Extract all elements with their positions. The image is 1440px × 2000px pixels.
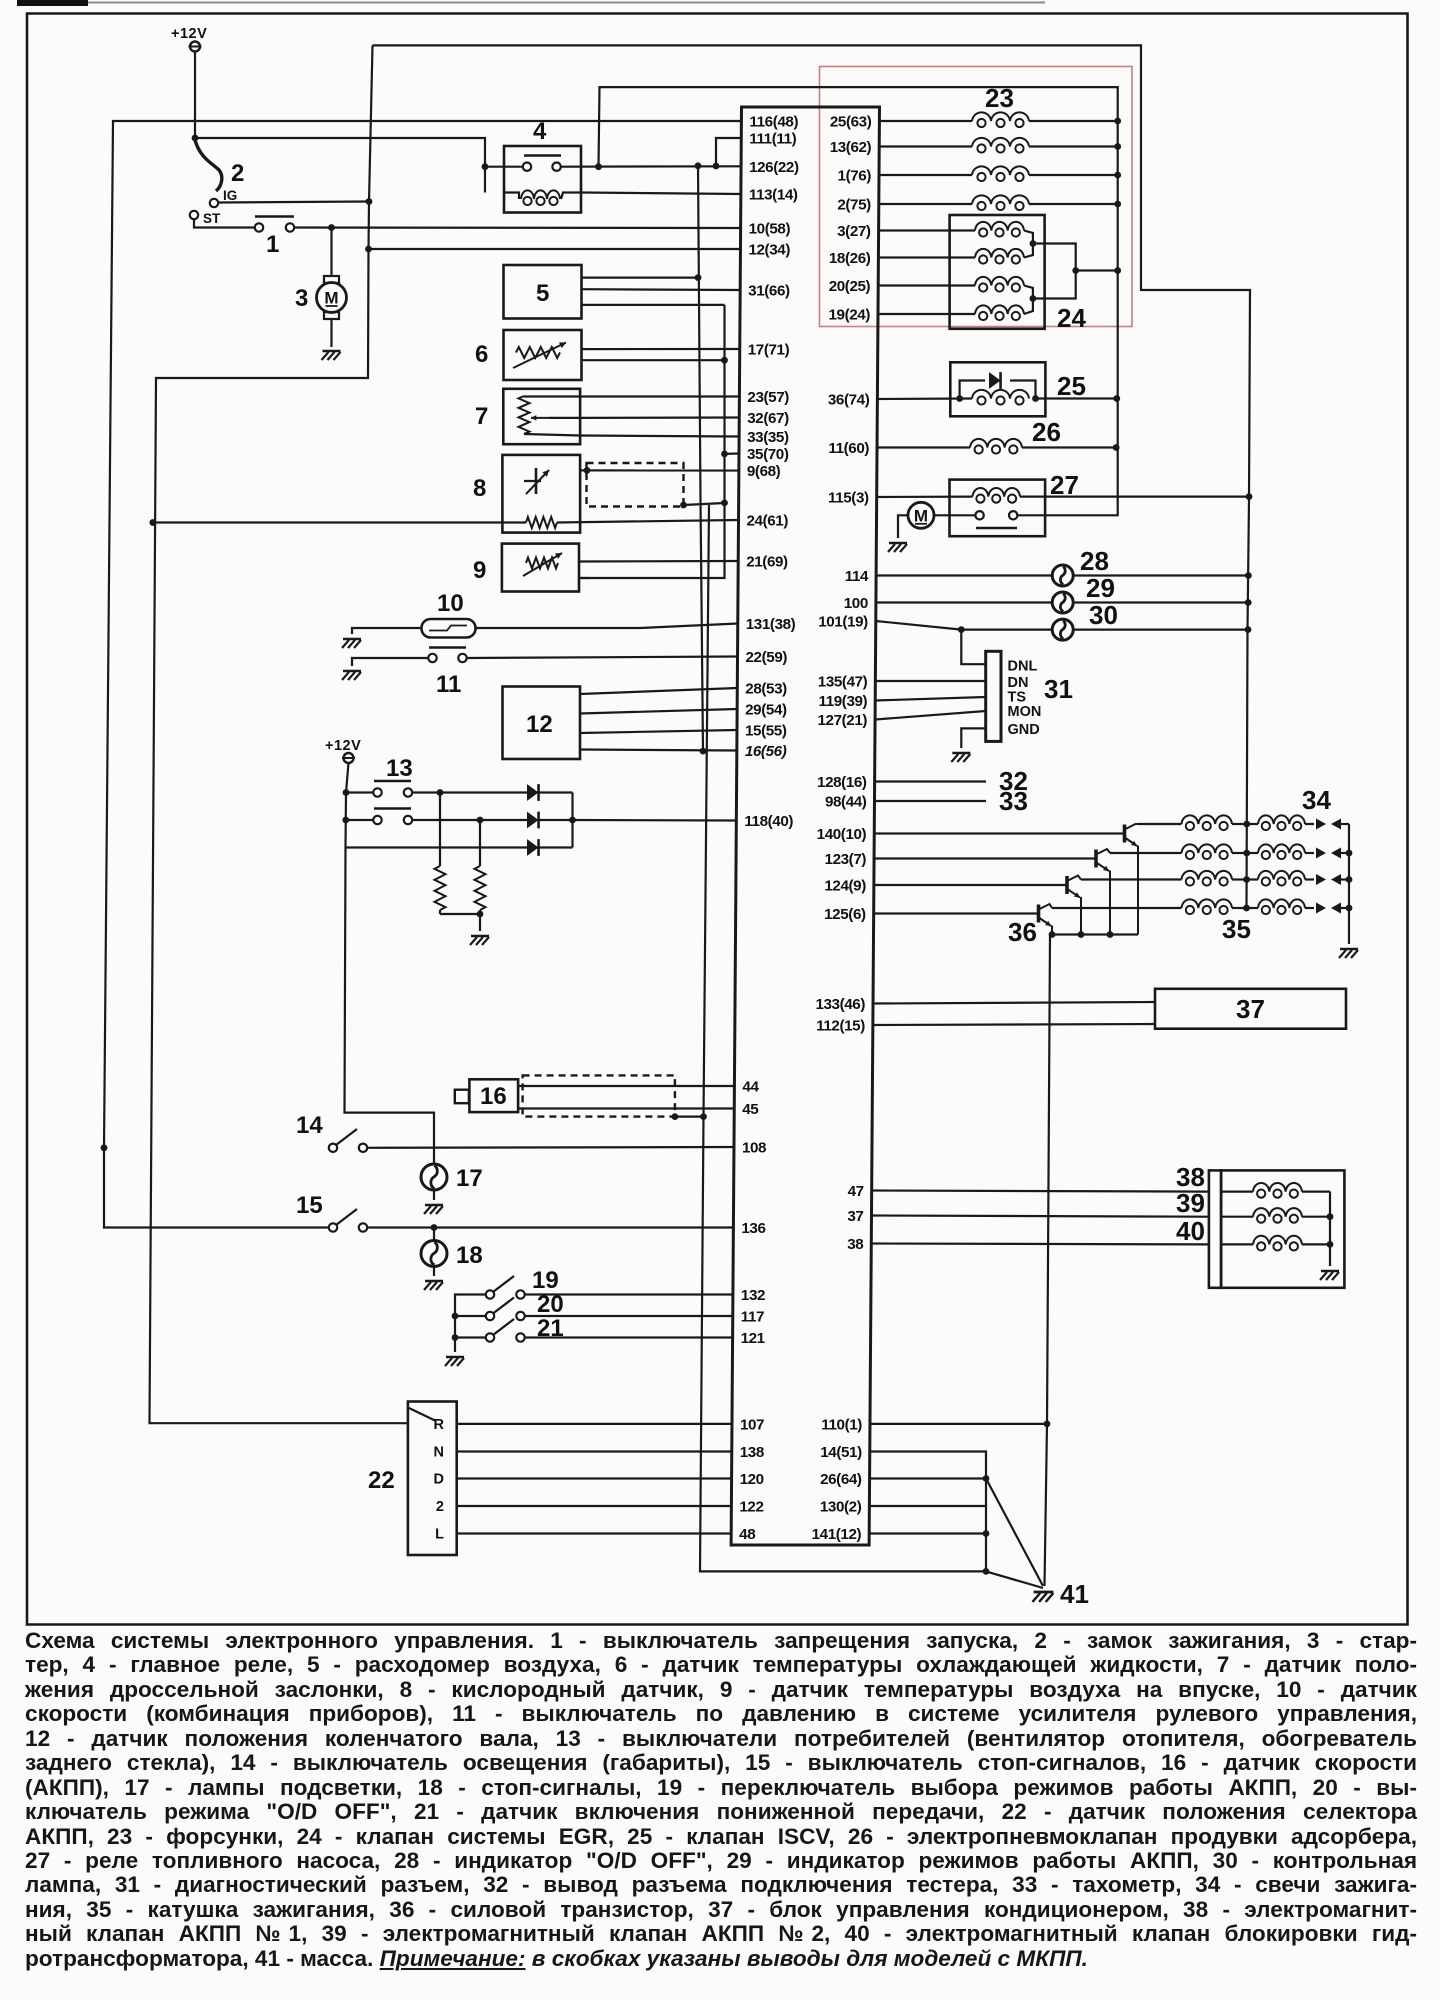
- svg-text:25: 25: [1057, 371, 1086, 401]
- junction emitter T4: [1049, 931, 1056, 938]
- transistor common emitter bus: [1052, 933, 1138, 935]
- main relay 4 box: [504, 146, 581, 213]
- ground (fuel pump): [889, 542, 907, 545]
- switch 19 lever: [493, 1276, 514, 1292]
- A/C control unit 37 box: [1155, 989, 1346, 1029]
- svg-text:24(61): 24(61): [747, 513, 789, 530]
- switch 13b contacts: [373, 816, 381, 824]
- svg-text:14: 14: [296, 1112, 323, 1139]
- junction injector 4 bus: [1114, 201, 1121, 208]
- wire 16 to pin 44: [518, 1085, 734, 1087]
- wire pin to solenoid 38: [872, 1191, 1209, 1192]
- lamp 18 (stop lights): [433, 1228, 435, 1241]
- wire comp5 line1: [582, 277, 699, 279]
- ignition coil 35 secondary 1: [1247, 823, 1258, 825]
- svg-text:21(69): 21(69): [746, 554, 788, 571]
- speed sensor 16 plug: [455, 1090, 469, 1104]
- wire pin 130(2): [869, 1505, 986, 1507]
- wire +B to pin 116(48) and light switches: [104, 121, 741, 1228]
- ground (speed sensor): [343, 638, 361, 641]
- svg-text:133(46): 133(46): [815, 996, 865, 1013]
- svg-text:132: 132: [741, 1287, 765, 1304]
- svg-text:127(21): 127(21): [818, 712, 868, 729]
- switch 15 lever: [336, 1209, 357, 1225]
- lamp 17 (illumination): [421, 1164, 447, 1190]
- svg-text:45: 45: [742, 1101, 759, 1118]
- svg-text:26: 26: [1032, 417, 1061, 447]
- junction 141(12): [983, 1530, 990, 1537]
- injector coil 23.2: [879, 145, 972, 147]
- stop switch 15 contacts: [329, 1223, 337, 1231]
- transistor Q1: [1123, 825, 1127, 843]
- junction comp5 busA: [695, 274, 702, 281]
- wire switch 14 to pin 108: [368, 1146, 735, 1149]
- EGR coil 24.1: [879, 229, 975, 231]
- svg-text:29: 29: [1086, 573, 1115, 603]
- svg-text:9: 9: [473, 557, 486, 584]
- svg-text:40: 40: [1176, 1216, 1205, 1246]
- junction solenoid 40: [1327, 1241, 1334, 1248]
- wire lamp 18 ground: [433, 1267, 435, 1277]
- intake air temp sensor 9 box: [502, 544, 579, 592]
- starter motor 3 terminal bottom: [324, 312, 339, 319]
- ground (lamp 17): [425, 1204, 443, 1207]
- svg-text:15(55): 15(55): [745, 723, 787, 740]
- scan artifact bar top-left: [17, 0, 88, 6]
- svg-text:125(6): 125(6): [824, 906, 866, 923]
- junction W2 injector feed start: [595, 163, 602, 170]
- junction bottom wire: [983, 1568, 990, 1575]
- thermistor 6: [516, 347, 560, 358]
- svg-text:110(1): 110(1): [821, 1416, 862, 1433]
- svg-text:GND: GND: [1008, 722, 1040, 738]
- ST terminal: [190, 211, 198, 219]
- switch 13a bar: [374, 780, 411, 782]
- junction +12V: [192, 135, 199, 142]
- svg-text:+12V: +12V: [325, 738, 361, 754]
- ground (connector 31): [952, 752, 970, 755]
- svg-text:141(12): 141(12): [812, 1526, 862, 1543]
- junction injector 1 bus: [1114, 118, 1121, 125]
- wire 16 shield to ground bus: [675, 1115, 704, 1117]
- junction comp16 shield on ground bus: [700, 1113, 707, 1120]
- resistor R2: [479, 820, 481, 866]
- air flow meter 5 box: [504, 265, 582, 319]
- svg-text:M: M: [914, 506, 928, 525]
- transistor Q2 emitter: [1097, 863, 1109, 871]
- purge valve coil 26: [877, 446, 970, 448]
- svg-text:11(60): 11(60): [828, 440, 869, 457]
- svg-text:98(44): 98(44): [825, 794, 867, 811]
- svg-text:28(53): 28(53): [745, 681, 787, 698]
- wire TPS to pin 23(57): [580, 395, 739, 397]
- junction 29 bus: [1245, 599, 1252, 606]
- svg-text:41: 41: [1060, 1579, 1089, 1609]
- O2 sensor element symbol: [535, 468, 538, 494]
- wire 12(34) row: [369, 248, 741, 250]
- wire comp6 to pin 17(71): [582, 348, 740, 350]
- wire pin 98(44) tachometer: [875, 800, 987, 802]
- svg-text:115(3): 115(3): [828, 490, 869, 507]
- junction ISCV left: [956, 395, 963, 402]
- junction injector 2 bus: [1114, 143, 1121, 150]
- light switch 14 contacts: [329, 1144, 337, 1152]
- wire TPS wiper to pin 32(67): [580, 416, 739, 419]
- junction R1 top: [437, 789, 444, 796]
- junction shield line busB: [721, 500, 728, 507]
- junction injector 3 bus: [1114, 172, 1121, 179]
- junction shield entry: [584, 467, 591, 474]
- svg-text:IG: IG: [223, 188, 237, 203]
- wire pin 36(74) to ISCV: [877, 397, 972, 400]
- svg-text:17(71): 17(71): [748, 342, 790, 359]
- injector coil 23.1: [879, 120, 972, 122]
- wire pin to solenoid 39: [872, 1216, 1209, 1217]
- svg-text:117: 117: [741, 1309, 764, 1326]
- transistor Q4: [1037, 905, 1041, 923]
- junction relay4 contact feed: [482, 163, 489, 170]
- indicator lamp 28: [1052, 565, 1073, 586]
- wire 12 to pin 29(54): [580, 709, 737, 714]
- svg-text:1: 1: [266, 231, 279, 258]
- svg-text:120: 120: [740, 1471, 764, 1488]
- power steering switch 11 contacts: [428, 654, 436, 662]
- svg-text:22: 22: [368, 1467, 395, 1494]
- wire pin 100 to lamp 29: [876, 601, 1053, 603]
- svg-text:D: D: [434, 1472, 444, 1488]
- busB sensor-ground vertical: [579, 305, 725, 578]
- TPS wiper arrow: [531, 417, 549, 419]
- junction ISCV bus: [1113, 395, 1120, 402]
- ground 41: [1034, 1591, 1054, 1594]
- junction 111(11) jog: [713, 163, 720, 170]
- O2 sensor arrow: [526, 470, 549, 494]
- svg-text:3: 3: [295, 285, 308, 312]
- busA vertical: [698, 166, 703, 751]
- wire pin 128(16) tester lead: [875, 780, 986, 782]
- wire relay 27 contact row: [1018, 514, 1046, 516]
- wire switch 11 to pin 22(59): [467, 657, 738, 659]
- solenoid ground rail: [1329, 1192, 1331, 1266]
- wire pin 123(7) to transistor Q2 base: [874, 857, 1096, 859]
- diode D2: [527, 812, 539, 829]
- junction IG wire: [366, 198, 373, 205]
- wire pin 133(46) to box 37: [873, 1002, 1155, 1004]
- wire +B top distribution W1: [373, 45, 1251, 908]
- ISCV diode: [989, 372, 1001, 389]
- diagonal ground lead A: [986, 1479, 1043, 1587]
- plug ground rail 34: [1348, 824, 1350, 944]
- wire 12 to pin 16(56): [580, 750, 737, 751]
- svg-text:121: 121: [741, 1330, 766, 1347]
- svg-text:24: 24: [1057, 303, 1086, 333]
- svg-text:26(64): 26(64): [820, 1471, 862, 1488]
- switch 19-21 ground rail: [455, 1295, 486, 1353]
- wire relay 4 coil to pin 113(14): [581, 193, 741, 195]
- svg-text:107: 107: [740, 1416, 764, 1433]
- svg-text:23: 23: [985, 83, 1014, 113]
- svg-text:6: 6: [475, 341, 488, 368]
- junction EGR pair 2: [1030, 295, 1037, 302]
- junction 110(1) row: [1044, 1421, 1051, 1428]
- svg-text:126(22): 126(22): [749, 159, 799, 176]
- ignition coil 35 secondary 2: [1247, 852, 1258, 854]
- svg-text:17: 17: [456, 1165, 483, 1192]
- indicator lamp 29: [1052, 592, 1073, 613]
- ignition coil 35 secondary 3: [1247, 878, 1258, 880]
- svg-text:4: 4: [533, 118, 547, 145]
- ISCV 25 box: [950, 362, 1045, 416]
- throttle position sensor 7 box: [503, 389, 580, 444]
- junction 26(64): [983, 1475, 990, 1482]
- wire motor to ground: [330, 319, 332, 347]
- ignition coil 35 secondary 4: [1247, 907, 1258, 909]
- svg-text:+12V: +12V: [171, 26, 207, 42]
- thermistor 9 arrow: [523, 553, 562, 576]
- junction 35(70) stub: [721, 451, 728, 458]
- TPS bottom line: [524, 434, 580, 436]
- svg-text:1(76): 1(76): [838, 168, 872, 185]
- svg-text:10: 10: [437, 590, 464, 617]
- transistor Q1 emitter: [1126, 838, 1138, 846]
- svg-text:124(9): 124(9): [824, 878, 866, 895]
- wire switch 21 to pin 121: [525, 1336, 733, 1338]
- wire EGR to bus: [1076, 269, 1118, 271]
- wire pin 110(1) to ground bus: [870, 1423, 1047, 1425]
- svg-text:37: 37: [847, 1208, 863, 1225]
- wire 22 R to pin 107: [457, 1423, 732, 1425]
- junction rail 21: [452, 1334, 459, 1341]
- svg-text:101(19): 101(19): [818, 614, 868, 631]
- fuel pump relay 27 box: [950, 480, 1046, 537]
- wire lamp 28 to bus: [1073, 574, 1248, 576]
- svg-text:36(74): 36(74): [828, 392, 870, 409]
- svg-text:48: 48: [739, 1526, 755, 1543]
- junction R2 top: [477, 817, 484, 824]
- wire 16 to pin 45: [518, 1107, 734, 1109]
- svg-text:12(34): 12(34): [748, 242, 790, 259]
- switch 13a contacts: [373, 788, 381, 796]
- oxygen sensor 8 box: [502, 455, 580, 533]
- junction busA at 16(56) row: [700, 748, 707, 755]
- switch 22 lever: [409, 1408, 436, 1421]
- EGR pair bracket 2: [1024, 286, 1033, 315]
- wire pin 26(64): [870, 1477, 986, 1479]
- wire switch 20 to pin 117: [525, 1315, 733, 1317]
- junction ISCV right: [1032, 395, 1039, 402]
- svg-text:38: 38: [847, 1236, 863, 1253]
- svg-text:N: N: [434, 1445, 444, 1461]
- ground (solenoids): [1321, 1270, 1339, 1273]
- relay 27 coil row: [877, 496, 973, 499]
- svg-text:135(47): 135(47): [818, 674, 868, 691]
- speed sensor 16 box: [469, 1079, 518, 1112]
- svg-text:5: 5: [536, 280, 549, 307]
- wire pin 140(10) to transistor Q1 base: [874, 832, 1124, 834]
- junction solenoid 39: [1327, 1213, 1334, 1220]
- junction emitter T2: [1107, 931, 1114, 938]
- svg-text:13(62): 13(62): [830, 139, 872, 156]
- +12V terminal (ignition): [190, 42, 200, 52]
- injector coil 23.3: [879, 174, 972, 176]
- relay 4 coil: [504, 193, 519, 200]
- svg-text:118(40): 118(40): [744, 813, 793, 830]
- injector coil 23.4: [879, 203, 972, 205]
- starter motor 3 terminal top: [324, 276, 339, 283]
- svg-text:16: 16: [480, 1083, 507, 1110]
- junction coil-row indicator bus: [1246, 493, 1253, 500]
- junction 12(34) row: [365, 246, 372, 253]
- shield dashed box (O2 wire): [587, 463, 684, 507]
- svg-text:9(68): 9(68): [747, 463, 781, 480]
- wire 13 block to pin 118(40): [573, 819, 737, 822]
- svg-text:31: 31: [1044, 674, 1073, 704]
- svg-text:M: M: [324, 289, 338, 308]
- svg-text:19(24): 19(24): [828, 307, 870, 324]
- solenoid coil 39: [1221, 1216, 1253, 1218]
- junction O2 heater feed: [149, 519, 156, 526]
- junction 16 shield corner: [672, 1113, 679, 1120]
- svg-text:7: 7: [475, 403, 488, 430]
- wire comp9 to pin 21(69): [579, 560, 738, 563]
- svg-text:18: 18: [456, 1242, 483, 1269]
- ISCV coil: [972, 390, 1029, 399]
- starter motor 3: [317, 283, 347, 313]
- svg-text:138: 138: [740, 1444, 764, 1461]
- EGR coil 24.4: [878, 313, 975, 315]
- indicator lamp 30: [1052, 619, 1073, 640]
- EGR pair bracket 1: [1024, 231, 1033, 258]
- diagonal ground lead B: [986, 1571, 1043, 1588]
- svg-text:33: 33: [999, 786, 1028, 816]
- ground (starter): [323, 350, 341, 353]
- resistor R1: [439, 793, 441, 867]
- wire speedo to pin 131(38): [476, 624, 738, 629]
- ground (13 block): [471, 935, 489, 938]
- +12V terminal (switches 13): [344, 753, 354, 763]
- thermistor 9: [526, 558, 558, 569]
- svg-text:20(25): 20(25): [829, 278, 871, 295]
- wire 13b row: [348, 819, 373, 821]
- wire switch 1 to pin 10(58): [295, 226, 741, 229]
- transistor Q2: [1094, 850, 1098, 868]
- wire IG to ECU feed vertical: [219, 202, 370, 203]
- wire 22 2 to pin 122: [457, 1505, 732, 1507]
- wire W2 injector feed bus: [599, 87, 1118, 515]
- crank position sensor 12 box: [503, 687, 581, 760]
- svg-text:114: 114: [845, 568, 869, 585]
- svg-text:8: 8: [473, 475, 486, 502]
- svg-text:113(14): 113(14): [749, 187, 798, 204]
- transistor Q3: [1065, 876, 1069, 894]
- wire +12V terminal down: [194, 52, 196, 139]
- svg-text:14(51): 14(51): [820, 1444, 862, 1461]
- junction coil 1 center bus: [1243, 821, 1250, 828]
- wire pin to solenoid 40: [871, 1242, 1209, 1245]
- ignition feed vertical: [150, 45, 409, 1423]
- junction busA top: [695, 162, 702, 169]
- svg-text:22(59): 22(59): [746, 649, 788, 666]
- diode output bus: [571, 793, 573, 848]
- svg-text:33(35): 33(35): [747, 429, 789, 446]
- emitter bus down to ground 41: [1045, 935, 1051, 1587]
- junction coil 3 center bus: [1243, 876, 1250, 883]
- wire 22 L to pin 48: [457, 1532, 732, 1534]
- svg-text:30: 30: [1089, 600, 1118, 630]
- junction EGR pair 1: [1030, 240, 1037, 247]
- wire pin 119(39) to TS: [875, 697, 986, 701]
- O2 heater resistor row: [153, 521, 526, 523]
- diode D1: [527, 784, 539, 801]
- wire 12 to pin 15(55): [580, 730, 737, 733]
- IG terminal: [210, 199, 218, 207]
- wire comp5 line2 to pin 31(66): [582, 288, 741, 291]
- svg-text:44: 44: [742, 1079, 759, 1096]
- svg-text:12: 12: [526, 711, 553, 738]
- wire comp9 line2 (busB corner): [579, 577, 590, 579]
- switch 14 lever: [336, 1129, 357, 1145]
- switch 21 contacts: [486, 1333, 494, 1341]
- selector switch 22 box: [408, 1402, 457, 1556]
- svg-text:123(7): 123(7): [825, 851, 867, 868]
- wire pin 114 to lamp 28: [876, 574, 1053, 576]
- svg-text:19: 19: [532, 1267, 559, 1294]
- svg-text:23(57): 23(57): [747, 389, 789, 406]
- junction starter branch: [328, 224, 335, 231]
- wire O2 signal to pin 9(68): [580, 469, 739, 471]
- svg-text:DNL: DNL: [1008, 659, 1038, 675]
- svg-text:122: 122: [739, 1499, 763, 1516]
- ignition coil 35 primary 3: [1081, 878, 1182, 880]
- svg-text:34: 34: [1302, 785, 1331, 815]
- wire 12 to pin 28(53): [580, 688, 737, 694]
- wire ISCV to bus: [1036, 397, 1117, 399]
- svg-text:13: 13: [386, 755, 413, 782]
- junction 26 bus: [1113, 444, 1120, 451]
- svg-text:2: 2: [436, 1499, 444, 1515]
- junction comp6 line2: [721, 357, 728, 364]
- wire jog pin 111(11): [716, 138, 741, 166]
- wire comp6 line2 to busB: [582, 359, 725, 361]
- switch 13 left rail: [345, 763, 435, 1164]
- EGR valve 24 box: [950, 215, 1045, 329]
- diagnostic connector 31 box: [986, 651, 1001, 741]
- wire to starter motor 3: [330, 228, 332, 278]
- relay 27 contact bar: [976, 527, 1017, 529]
- svg-text:11: 11: [436, 671, 461, 698]
- wire switch 15 to pin 136: [368, 1226, 734, 1228]
- wire pin 112(15) to box 37: [873, 1024, 1155, 1025]
- wire ST to inhibitor switch 1: [194, 220, 255, 228]
- coolant temp sensor 6 box: [504, 330, 582, 380]
- junction 28 bus: [1245, 572, 1252, 579]
- svg-text:36: 36: [1008, 917, 1037, 947]
- svg-text:29(54): 29(54): [745, 702, 787, 719]
- junction coil 4 center bus: [1243, 905, 1250, 912]
- wire relay 4 contact row: [485, 166, 523, 168]
- solenoid coil 38: [1221, 1190, 1253, 1192]
- red highlight box around injectors: [820, 67, 1133, 327]
- svg-text:140(10): 140(10): [817, 826, 867, 843]
- svg-text:ST: ST: [203, 211, 221, 226]
- ground (switch 11): [343, 670, 361, 673]
- wire speedo left to ground: [352, 628, 422, 634]
- switch 20 lever: [493, 1298, 514, 1314]
- switch 1 bar: [255, 215, 294, 217]
- wire pin 125(6) to transistor Q4 base: [874, 912, 1039, 914]
- wire pin 14(51): [870, 1452, 986, 1574]
- switch 20 contacts: [486, 1312, 494, 1320]
